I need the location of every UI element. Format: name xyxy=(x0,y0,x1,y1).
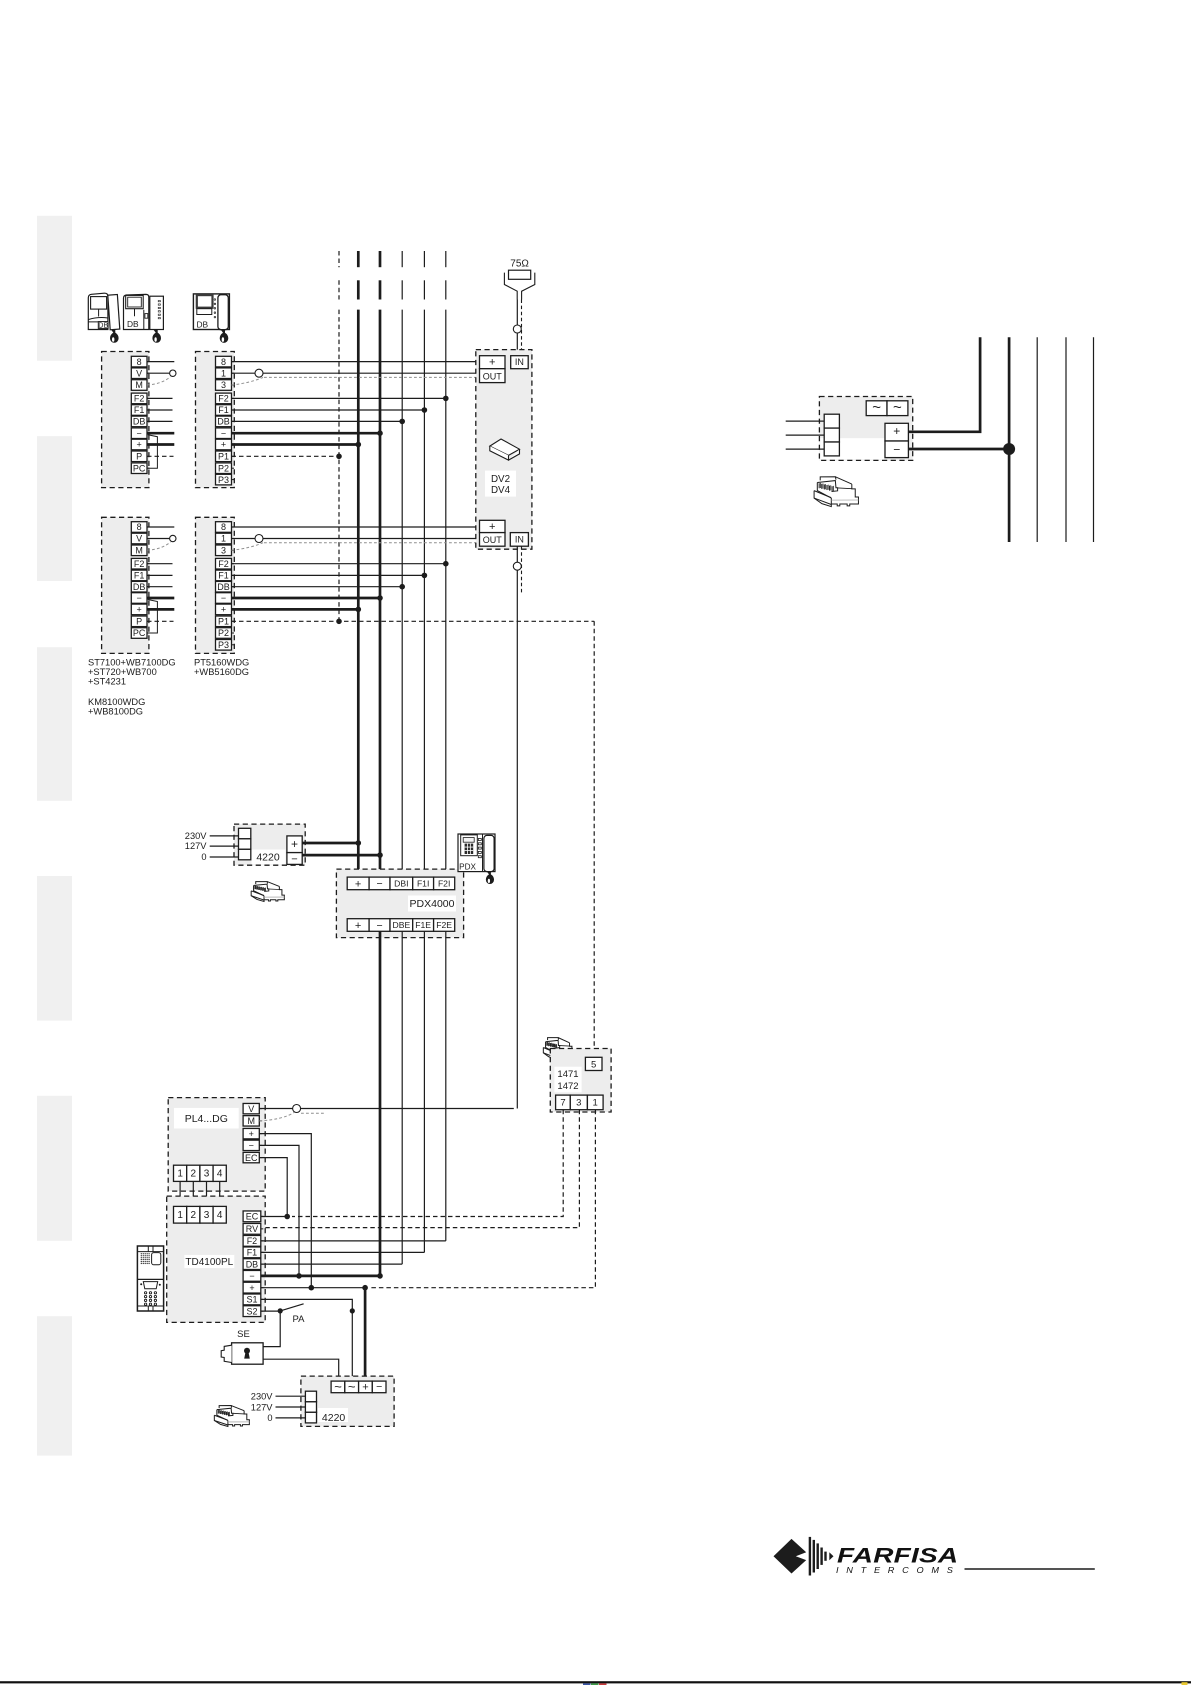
wire PSU - to riser (thick) xyxy=(908,448,1009,451)
junction F2 xyxy=(443,396,449,402)
door station icon TD4100PL xyxy=(137,1246,163,1311)
transformer 4220 dashed enclosure (upper) xyxy=(234,824,305,865)
jumper - to PC xyxy=(148,435,158,469)
wire terminal - stub (thick) xyxy=(147,597,174,600)
PDX phone icon xyxy=(458,834,495,872)
riser bus wire - (x=380.0) xyxy=(379,251,382,267)
connector circle on IN lead xyxy=(513,325,521,333)
wire P1 net down to terminal 5 of 1471 (dashed) xyxy=(593,621,595,1057)
wire PSU + to riser (thick) xyxy=(908,337,980,432)
power supply dashed enclosure (right excerpt) xyxy=(819,397,912,461)
wire terminal 8 stub xyxy=(147,526,174,528)
junction F2 xyxy=(443,561,449,567)
wire - down (thick, to TD4100PL -) xyxy=(379,931,382,1276)
page margin tab 2 xyxy=(37,436,72,581)
riser bus wire F2 (x=445.8) xyxy=(445,251,447,267)
wire terminal 1 to + net (dashed) xyxy=(369,1110,595,1288)
wire IN floor2 down to videophone column (solid) xyxy=(516,546,518,1108)
page margin tab 4 xyxy=(37,876,72,1021)
wire + to bus (thick) xyxy=(232,608,359,611)
PL4 terminal strip V/M/+/-/EC xyxy=(243,1103,259,1113)
wire terminal F2 stub xyxy=(147,397,173,399)
terminal strip 8/V/M/F2/F1/DB/-/+/P/PC xyxy=(131,356,147,367)
DIN rail module icon (upper 4220) xyxy=(256,882,268,884)
wire P1 (dashed) xyxy=(232,620,595,622)
junction - / bus down xyxy=(377,1273,383,1279)
label TD4100PL xyxy=(184,1255,234,1268)
wire F2 to bus xyxy=(232,397,446,399)
wire DBE down (to TD4100PL DB) xyxy=(401,931,403,1264)
wire PL4 EC down to EC net xyxy=(259,1158,287,1217)
PDX4000 external terminal row + - DBE F1E F2E xyxy=(347,919,369,932)
FARFISA logo diamond xyxy=(774,1539,807,1574)
PDX4000 internal terminal row + - DBI F1I F2I xyxy=(347,877,369,890)
riser bus wire F1 (x=424.4) xyxy=(423,251,425,267)
junction DB xyxy=(399,584,405,590)
distributor DV2/DV4 dashed enclosure xyxy=(476,350,532,550)
wire SE to 4220 ~ xyxy=(263,1359,339,1381)
wire F2 to bus xyxy=(232,563,446,565)
1471 terminal 5 xyxy=(585,1057,602,1070)
wire 75-ohm to IN of DV2 (solid) xyxy=(516,300,518,356)
junction - xyxy=(377,595,383,601)
PSU mains input terminals xyxy=(824,414,839,428)
DV2 terminal + (floor 1) xyxy=(480,356,506,369)
transformer 4220 dashed enclosure (lower) xyxy=(301,1376,394,1426)
digital encoder TD4100PL dashed enclosure xyxy=(167,1196,266,1322)
junction F1 xyxy=(422,573,428,579)
videophone unit dashed enclosure (left column) xyxy=(102,352,149,488)
PSU AC terminal ~ 2 xyxy=(887,401,908,416)
PL4 terminal row 1 2 3 4 xyxy=(174,1165,187,1181)
wire terminal F1 stub xyxy=(147,409,173,411)
FARFISA logo bars xyxy=(809,1537,811,1576)
mains wires (lower 4220) xyxy=(276,1395,306,1397)
DIN rail module icon (right PSU) xyxy=(820,477,836,481)
wire 1 to DV OUT terminal xyxy=(232,372,480,374)
videophone unit dashed enclosure (left column) xyxy=(102,517,149,653)
wire F1E down (to TD4100PL F1) xyxy=(423,931,425,1252)
wire terminal V to connector xyxy=(147,372,169,374)
page margin tab 1 xyxy=(37,216,72,361)
wire terminal P stub (dashed) xyxy=(147,620,174,622)
print registration marks xyxy=(583,1683,591,1685)
wire F2E down (to TD4100PL F2) xyxy=(445,931,447,1241)
wire terminal 3 to RV (dashed) xyxy=(261,1110,580,1228)
label PL4...DG xyxy=(174,1108,239,1129)
riser bus wire DB (x=402.2) xyxy=(401,251,403,267)
wire terminal - stub (thick) xyxy=(147,432,174,435)
wire TD - (thick) xyxy=(261,1275,380,1278)
junction F1 xyxy=(422,407,428,413)
wire TD DB up to DBE xyxy=(261,1263,402,1265)
wire F1 to bus xyxy=(232,409,425,411)
wire terminal DB stub xyxy=(147,586,173,588)
junction + xyxy=(356,607,362,613)
wire 3 alternative (dashed) to OUT xyxy=(232,543,264,551)
label 1471 1472 xyxy=(554,1067,581,1093)
terminal strip 8/V/M/F2/F1/DB/-/+/P/PC xyxy=(131,522,147,533)
wire + net down to 4220 + (thick) xyxy=(364,1288,367,1381)
wire 8 to DV + terminal xyxy=(232,526,480,528)
videophone unit dashed enclosure (PT5160 column) xyxy=(196,352,235,488)
jumper - to PC xyxy=(148,600,158,634)
junction + / PL4 xyxy=(309,1285,315,1291)
connector circle V/M PL4 xyxy=(293,1105,301,1113)
label 4220 (lower) xyxy=(318,1408,348,1422)
connector circle 1/3 xyxy=(255,535,263,543)
wire 3 alternative (dashed) to OUT xyxy=(232,377,264,385)
75-ohm terminator plug body xyxy=(504,273,517,300)
exchanger PDX4000 dashed enclosure xyxy=(336,869,463,938)
DV2 terminal OUT (floor 2) xyxy=(480,533,506,547)
TD4100PL terminal row 1 2 3 4 xyxy=(174,1206,187,1223)
4220 lower terminal row ~ ~ + - xyxy=(331,1381,345,1393)
terminal strip 8/1/3/F2/F1/DB/-/+/P1/P2/P3 xyxy=(216,356,232,367)
wire TD S2 to PA xyxy=(261,1310,280,1312)
junction - bus / 4220 xyxy=(377,852,383,858)
DV2 terminal IN (floor 1) xyxy=(511,356,529,369)
wire 4220 - to bus (thick) xyxy=(302,854,380,857)
relay 1471/1472 dashed enclosure xyxy=(550,1049,611,1113)
wire terminal V to connector xyxy=(147,538,169,540)
junction + bus / 4220 xyxy=(356,840,362,846)
junction + xyxy=(356,442,362,448)
junction - right riser xyxy=(1003,443,1015,455)
wire terminal + stub (thick) xyxy=(147,608,174,611)
junction - xyxy=(377,430,383,436)
terminal strip 8/1/3/F2/F1/DB/-/+/P1/P2/P3 xyxy=(216,522,232,533)
wire P1 (dashed) xyxy=(232,455,340,457)
riser bus wire P1 (x=339.0) xyxy=(338,251,340,267)
FARFISA logo rule xyxy=(965,1568,1095,1570)
label PDX4000 xyxy=(408,896,456,912)
riser wire - (thick, right excerpt) xyxy=(1008,337,1011,542)
75-ohm terminator resistor xyxy=(509,270,531,279)
PSU terminal + xyxy=(885,423,908,441)
wire DB to bus xyxy=(232,420,403,422)
wire TD + xyxy=(261,1287,365,1289)
wire DB to bus xyxy=(232,586,403,588)
1471 terminal row 7 3 1 xyxy=(556,1095,571,1110)
wire PL4 + down to + net xyxy=(259,1134,311,1288)
4220 terminal - (upper) xyxy=(287,853,302,865)
page margin tab 6 xyxy=(37,1316,72,1455)
PSU terminal - xyxy=(885,441,908,458)
wire V to distributor column xyxy=(259,1108,514,1110)
wire TD F1 up to F1E xyxy=(261,1251,425,1253)
videophone unit dashed enclosure (PT5160 column) xyxy=(196,517,235,653)
wire PA right contact down to 4220 ~ xyxy=(351,1311,353,1381)
videophone icon ST7100 xyxy=(88,293,108,329)
label DV2 DV4 xyxy=(485,471,516,497)
videophone icon KM8100 xyxy=(124,294,149,329)
junction DB xyxy=(399,419,405,425)
DV2 terminal IN (floor 2) xyxy=(510,533,528,547)
junction - / PL4 xyxy=(296,1273,302,1279)
DV2 distributor chip icon xyxy=(490,439,520,455)
wire + to bus (thick) xyxy=(232,443,359,446)
riser bus wire + (x=358.3) xyxy=(357,251,360,267)
riser wire a (right excerpt) xyxy=(1036,337,1038,542)
mains wires (upper 4220) xyxy=(210,835,239,837)
junction P1 xyxy=(336,454,342,460)
wire - to bus (thick) xyxy=(232,432,381,435)
connector circle V/M xyxy=(170,535,176,541)
wire 4220 + to bus (thick) xyxy=(302,842,358,845)
DIN rail module icon (lower 4220) xyxy=(219,1406,231,1409)
wires 1-4 PL4 to TD4100PL xyxy=(179,1181,181,1206)
connector circle below IN floor2 xyxy=(513,562,521,570)
connector circle V/M xyxy=(170,370,176,376)
4220 mains terminals (upper) xyxy=(239,828,251,839)
wire terminal + stub (thick) xyxy=(147,443,174,446)
FARFISA logo INTERCOMS xyxy=(836,1565,961,1574)
wire 1 to DV OUT terminal xyxy=(232,538,480,540)
DV2 terminal OUT (floor 1) xyxy=(480,369,506,383)
riser wire b (right excerpt) xyxy=(1065,337,1067,542)
FARFISA logo wordmark xyxy=(837,1544,958,1568)
wire M alternative (dashed) xyxy=(259,1113,294,1121)
junction EC net xyxy=(284,1214,290,1220)
wire terminal M alternative (dashed) xyxy=(147,377,171,385)
wire TD F2 up to F2E xyxy=(261,1240,446,1242)
wire 75-ohm to IN of DV2 (dashed pair) xyxy=(521,300,523,351)
wire TD S1 to PA xyxy=(261,1299,353,1311)
videophone icon PT5160 xyxy=(193,294,229,330)
4220 terminal + (upper) xyxy=(287,836,302,853)
wire PA left contact down to SE xyxy=(263,1311,280,1347)
push button PA xyxy=(278,1308,283,1313)
junction + / down wire xyxy=(362,1285,368,1291)
PSU AC terminal ~ 1 xyxy=(866,401,887,416)
riser wire c (right excerpt) xyxy=(1093,337,1095,542)
wire terminal F1 stub xyxy=(147,574,173,576)
wire F1 to bus xyxy=(232,574,425,576)
wire terminal 7 to EC net (dashed) xyxy=(292,1110,563,1217)
wire terminal M alternative (dashed) xyxy=(147,542,171,550)
wire terminal 8 stub xyxy=(147,361,174,363)
DV2 terminal + (floor 2) xyxy=(480,520,506,532)
page margin tab 5 xyxy=(37,1096,72,1241)
wire terminal DB stub xyxy=(147,420,173,422)
page margin tab 3 xyxy=(37,647,72,801)
wire terminal P stub (dashed) xyxy=(147,455,174,457)
wire TD EC right xyxy=(261,1216,287,1218)
wire PL4 - down to - net xyxy=(259,1145,299,1276)
junction P1 xyxy=(336,619,342,625)
wire IN floor2 dashed stub xyxy=(521,546,523,593)
wire - to bus (thick) xyxy=(232,597,381,600)
wire 8 to DV + terminal xyxy=(232,361,480,363)
4220 mains terminals (lower) xyxy=(305,1391,316,1402)
page bottom rule xyxy=(0,1681,1191,1683)
TD4100PL terminal strip EC/RV/F2/F1/DB/-/+/S1/S2 xyxy=(243,1211,261,1222)
electric lock SE xyxy=(232,1343,264,1364)
DIN rail module icon (1471) xyxy=(548,1038,559,1041)
wire terminal F2 stub xyxy=(147,563,173,565)
connector circle 1/3 xyxy=(255,369,263,377)
PSU mains input wires xyxy=(786,420,825,422)
push-button panel PL4...DG dashed enclosure xyxy=(168,1098,265,1192)
